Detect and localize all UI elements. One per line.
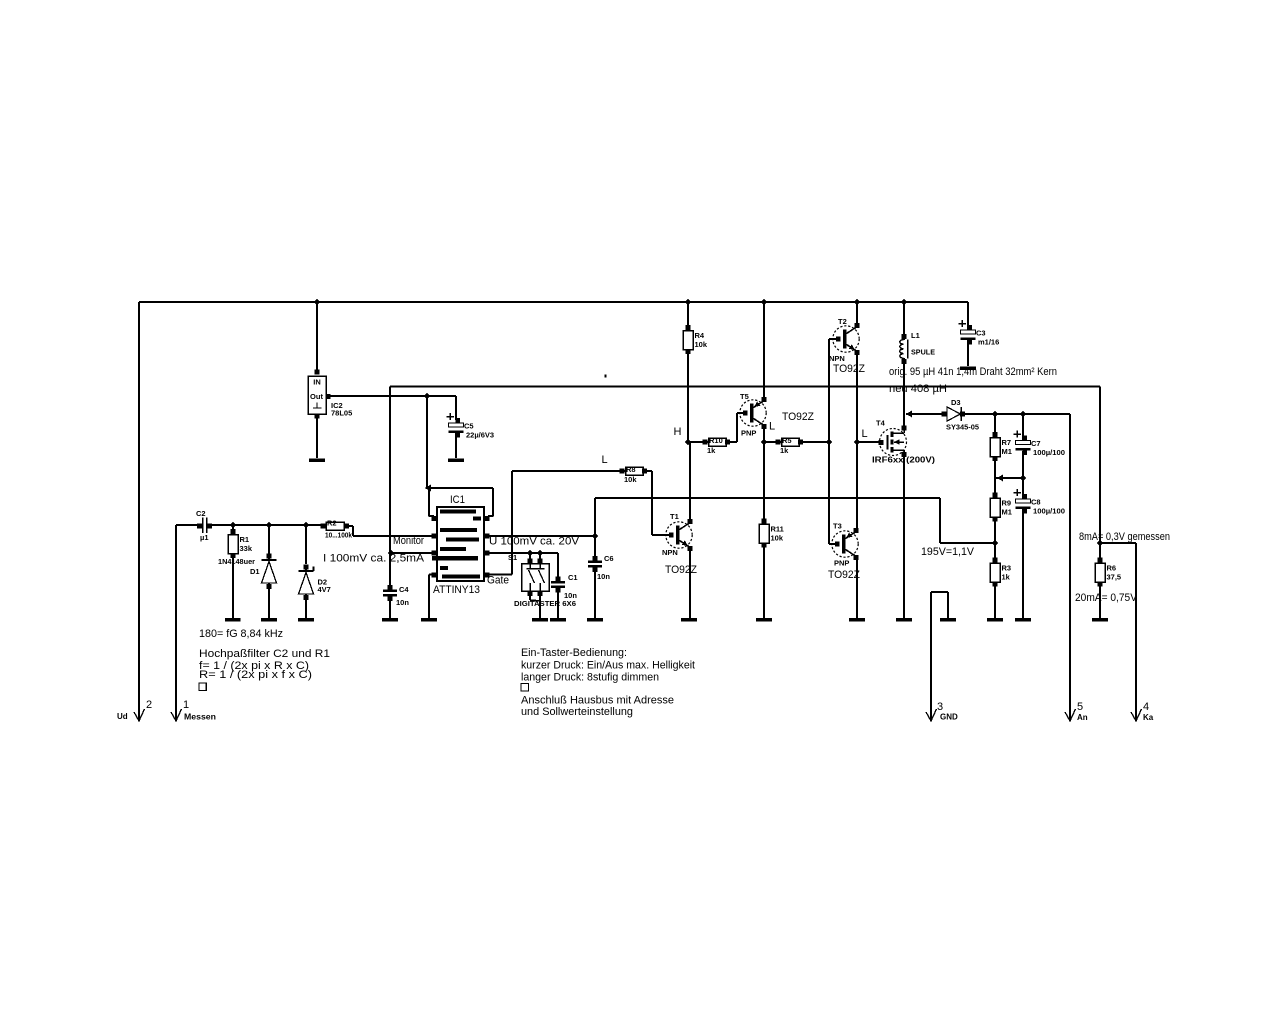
svg-text:22µ/6V3: 22µ/6V3: [466, 431, 494, 440]
pin arrow 3 GND: [926, 701, 958, 722]
junction: [230, 522, 237, 529]
svg-text:R8: R8: [626, 465, 636, 474]
wire S1 right stub top: [539, 553, 541, 561]
svg-text:C7: C7: [1031, 439, 1041, 448]
resistor R9: [990, 493, 1012, 522]
resistor R5: [776, 436, 803, 455]
wire gate tap to T4: [857, 441, 881, 443]
svg-text:4V7: 4V7: [318, 585, 331, 594]
resistor R11: [759, 519, 784, 548]
svg-text:Out: Out: [310, 392, 323, 401]
wire R3 to ground: [994, 584, 996, 618]
svg-text:T1: T1: [670, 512, 679, 521]
wire D2 top: [305, 525, 307, 564]
wire C4 drop: [389, 553, 391, 588]
svg-text:µ1: µ1: [200, 533, 209, 542]
wire R6 to ground: [1099, 584, 1101, 618]
svg-text:PNP: PNP: [834, 559, 849, 568]
wire Gate row: [488, 471, 621, 575]
junction: [685, 439, 692, 446]
capacitor: [1014, 430, 1031, 455]
wire C3 gnd drop: [967, 340, 969, 366]
inductor L1 SPULE: [900, 334, 908, 364]
wire C4 to ground: [389, 598, 391, 618]
svg-text:NPN: NPN: [662, 548, 678, 557]
svg-text:Monitor: Monitor: [393, 535, 424, 547]
ground: [382, 618, 398, 621]
svg-text:T3: T3: [833, 522, 842, 531]
svg-text:TO92Z: TO92Z: [833, 363, 865, 375]
junction: [901, 299, 908, 306]
junction: [303, 522, 310, 529]
ground: [309, 459, 325, 462]
diode D2: [299, 565, 314, 600]
ground: [532, 618, 548, 621]
svg-text:R3: R3: [1002, 564, 1012, 573]
svg-text:SY345-05: SY345-05: [946, 423, 979, 432]
capacitor C5: [447, 413, 495, 440]
junction: [992, 540, 999, 547]
wire L node to R11: [763, 442, 765, 521]
wire T2 emitter to T3 emitter column: [856, 351, 858, 531]
junction: [992, 411, 999, 418]
junction: [761, 299, 768, 306]
IC1 pins: [432, 534, 490, 578]
junction: [527, 550, 534, 557]
ground: [421, 618, 437, 621]
svg-text:kurzer Druck: Ein/Aus max. Hel: kurzer Druck: Ein/Aus max. Helligkeit: [521, 660, 695, 672]
wire H node to R10: [688, 441, 705, 443]
wire C8 to ground: [1022, 509, 1024, 618]
wire R4 top: [687, 302, 689, 328]
svg-text:R1: R1: [240, 535, 250, 544]
svg-text:M1: M1: [1002, 508, 1012, 517]
wire C6 drop: [594, 536, 596, 559]
svg-text:10k: 10k: [695, 340, 708, 349]
wire L node to R5: [764, 441, 777, 443]
wire 5V rail: [390, 386, 1100, 388]
svg-text:1N4148uer: 1N4148uer: [218, 557, 255, 566]
svg-text:D3: D3: [951, 398, 961, 407]
wire An column: [1069, 414, 1071, 719]
junction: [854, 299, 861, 306]
wire U100mV row: [488, 535, 595, 537]
wire Ka column: [1135, 543, 1137, 719]
stray dot: [605, 375, 607, 378]
capacitor: [1014, 489, 1031, 514]
svg-text:10n: 10n: [564, 591, 577, 600]
svg-text:D1: D1: [250, 567, 260, 576]
ground: [225, 618, 241, 621]
wire C2 row: [209, 524, 323, 526]
svg-text:R6: R6: [1107, 564, 1117, 573]
wire C7 top stub: [1022, 414, 1024, 440]
svg-text:U 100mV ca. 20V: U 100mV ca. 20V: [489, 536, 580, 548]
svg-text:neu 408 µH: neu 408 µH: [889, 383, 947, 395]
wire R9 bottom to R3: [994, 519, 996, 560]
capacitor C4: [383, 585, 409, 607]
svg-text:C2: C2: [196, 509, 206, 518]
svg-text:S1: S1: [508, 553, 517, 562]
svg-text:m1/16: m1/16: [978, 338, 999, 347]
ground: [987, 618, 1003, 621]
svg-text:195V=1,1V: 195V=1,1V: [921, 546, 975, 558]
svg-text:R9: R9: [1002, 499, 1012, 508]
svg-text:R7: R7: [1002, 438, 1012, 447]
svg-text:180= fG 8,84 kHz: 180= fG 8,84 kHz: [199, 628, 283, 640]
pushbutton S1 DIGITASTER 6X6: [522, 559, 550, 596]
svg-text:IN: IN: [313, 378, 321, 387]
wire 195V drop: [939, 498, 941, 543]
svg-text:H: H: [674, 426, 682, 438]
svg-text:2: 2: [146, 699, 152, 711]
resistor R7: [990, 432, 1012, 461]
svg-text:R4: R4: [695, 331, 705, 340]
wire Messen stub: [176, 524, 199, 526]
wire left Ud column: [138, 302, 140, 719]
svg-text:und Sollwerteinstellung: und Sollwerteinstellung: [521, 706, 633, 718]
microcontroller IC1 body: [437, 507, 484, 581]
wire L1 top: [903, 302, 905, 336]
svg-text:Anschluß Hausbus mit Adresse: Anschluß Hausbus mit Adresse: [521, 695, 674, 707]
svg-text:M1: M1: [1002, 447, 1012, 456]
capacitor C1: [551, 573, 578, 600]
wire 195V row: [940, 542, 995, 544]
ground: [681, 618, 697, 621]
wire T2 base stub: [829, 338, 836, 340]
wire R7 top stub: [994, 414, 996, 435]
junction: [685, 299, 692, 306]
wire 5V rail left drop to C4 node: [389, 387, 391, 554]
pin arrow 4 Ka: [1131, 701, 1154, 722]
svg-text:10...100k: 10...100k: [325, 531, 353, 540]
resistor R3: [990, 558, 1011, 587]
resistor R1: [228, 529, 253, 558]
wire GND stub: [931, 592, 948, 618]
wire IC2 gnd drop: [316, 415, 318, 458]
svg-text:C4: C4: [399, 585, 409, 594]
svg-text:1k: 1k: [1002, 573, 1011, 582]
junction: [1020, 475, 1027, 482]
junction: [761, 439, 768, 446]
svg-text:I 100mV ca. 2,5mA: I 100mV ca. 2,5mA: [323, 553, 425, 565]
ground: [896, 618, 912, 621]
svg-text:3: 3: [937, 701, 943, 713]
resistor R4: [683, 325, 708, 354]
wire D1 top: [268, 525, 270, 557]
small square marker mid: [521, 684, 528, 691]
svg-text:R10: R10: [709, 436, 723, 445]
wire C6 node up: [594, 498, 596, 536]
wire C7 row to C8: [1022, 478, 1024, 499]
junction: [424, 393, 431, 400]
pin arrow 5 An: [1065, 701, 1088, 722]
wire R4 to H node: [687, 328, 689, 442]
wire GND arrow column: [930, 592, 932, 719]
svg-text:10k: 10k: [771, 534, 784, 543]
junction: [388, 550, 395, 557]
junction arrow R7 bottom row: [997, 475, 1004, 482]
svg-text:78L05: 78L05: [331, 409, 352, 418]
transistor T5: [740, 397, 767, 429]
svg-text:10n: 10n: [597, 572, 610, 581]
wire R6 node to Ka branch: [1100, 542, 1136, 544]
svg-text:T5: T5: [740, 392, 749, 401]
wire R1 top stub: [232, 525, 234, 532]
junction arrow at T4 drain: [906, 411, 913, 418]
diode D1: [262, 554, 277, 589]
svg-text:TO92Z: TO92Z: [828, 569, 860, 581]
svg-text:L1: L1: [911, 331, 920, 340]
svg-text:R5: R5: [782, 436, 792, 445]
svg-text:R= 1 / (2x pi x f x C): R= 1 / (2x pi x f x C): [199, 669, 312, 681]
ground: [261, 618, 277, 621]
svg-text:IC1: IC1: [450, 494, 465, 506]
svg-text:L: L: [769, 421, 775, 433]
wire T2/T3 base column: [828, 339, 830, 544]
ground: [940, 618, 956, 621]
voltage regulator IC2 78L05: [308, 370, 330, 419]
wire R1 to ground: [232, 555, 234, 618]
junction: [854, 439, 861, 446]
svg-text:5: 5: [1077, 701, 1083, 713]
transistor T1: [666, 519, 693, 551]
wire T1 emitter to ground: [689, 548, 691, 618]
svg-text:100µ/100: 100µ/100: [1033, 507, 1065, 516]
wire right drop to R6: [1099, 387, 1101, 561]
wire S1 row: [488, 552, 558, 554]
resistor R8: [620, 465, 647, 484]
junction: [537, 550, 544, 557]
wire T4 source to ground: [903, 455, 905, 618]
junction: [592, 533, 599, 540]
capacitor C3: [959, 320, 1000, 347]
svg-text:T2: T2: [838, 317, 847, 326]
svg-text:GND: GND: [940, 713, 958, 722]
svg-text:4: 4: [1143, 701, 1149, 713]
wire C6 to ground: [594, 569, 596, 618]
svg-text:37,5: 37,5: [1107, 573, 1122, 582]
junction: [266, 522, 273, 529]
wire D3 cathode row: [962, 413, 1070, 415]
ground: [550, 618, 566, 621]
transistor T3: [832, 528, 859, 560]
ground: [587, 618, 603, 621]
ground: [756, 618, 772, 621]
transistor T2: [833, 323, 860, 355]
svg-text:IRF6xx (200V): IRF6xx (200V): [872, 456, 935, 465]
wire T3 collector to ground: [856, 558, 858, 618]
ground: [448, 459, 464, 462]
svg-text:C1: C1: [568, 573, 578, 582]
pin arrow 1 Messen: [171, 699, 216, 722]
wire C1 to ground: [557, 589, 559, 618]
capacitor C6: [588, 554, 614, 581]
wire C5 drop: [455, 396, 457, 420]
wire R7-R9 link: [994, 458, 996, 495]
svg-text:TO92Z: TO92Z: [665, 564, 697, 576]
svg-text:SPULE: SPULE: [911, 348, 935, 357]
svg-text:100µ/100: 100µ/100: [1033, 448, 1065, 457]
wire IC1 gnd: [429, 575, 433, 619]
wire R8 to T1 base: [644, 471, 670, 535]
MOSFET T4 IRF6xx: [879, 426, 907, 457]
wire R2 to Monitor pin: [346, 526, 433, 536]
wire T1 collector riser: [689, 442, 691, 521]
ground: [298, 618, 314, 621]
svg-text:8mA= 0,3V gemessen: 8mA= 0,3V gemessen: [1079, 531, 1170, 543]
svg-text:L: L: [602, 454, 608, 466]
wire T4 drain node to D3: [906, 413, 944, 415]
svg-text:33k: 33k: [240, 544, 253, 553]
junction: [1097, 540, 1104, 547]
wire D2 to ground: [305, 593, 307, 618]
svg-text:20mA= 0,75V: 20mA= 0,75V: [1075, 592, 1138, 604]
svg-text:C5: C5: [464, 422, 474, 431]
svg-text:R2: R2: [327, 519, 337, 528]
svg-text:PNP: PNP: [741, 429, 756, 438]
wire C1 drop: [557, 553, 559, 579]
wire S1 bottom merge: [530, 593, 540, 601]
wire 2.5mA row to IC1: [390, 552, 433, 554]
svg-text:T4: T4: [876, 419, 886, 428]
wire Messen column: [175, 525, 177, 719]
svg-text:DIGITASTER 6X6: DIGITASTER 6X6: [514, 599, 576, 608]
resistor R10: [703, 436, 730, 455]
svg-text:C8: C8: [1031, 498, 1041, 507]
svg-text:Ud: Ud: [117, 712, 128, 721]
IC1 ATTINY13 frame: [425, 485, 494, 521]
svg-text:NPN: NPN: [829, 354, 845, 363]
wire T5 collector to L node: [763, 426, 765, 442]
wire IC2 IN drop: [316, 302, 318, 372]
junction: [1020, 411, 1027, 418]
wire T5 emitter column: [763, 302, 765, 401]
wire C3 top: [967, 302, 969, 331]
small square marker left: [199, 683, 206, 690]
wire +V top rail: [139, 301, 968, 303]
svg-text:ATTINY13: ATTINY13: [433, 584, 480, 596]
wire R10 to T5 base: [728, 413, 746, 442]
svg-text:1k: 1k: [707, 446, 716, 455]
wire C5 gnd drop: [455, 433, 457, 458]
wire S1 to ground: [539, 601, 541, 618]
svg-text:C6: C6: [604, 554, 614, 563]
pin arrow 2 Ud: [117, 699, 152, 721]
svg-text:Hochpaßfilter C2 und R1: Hochpaßfilter C2 und R1: [199, 648, 330, 660]
junction: [826, 439, 833, 446]
svg-text:10n: 10n: [396, 598, 409, 607]
svg-text:10k: 10k: [624, 475, 637, 484]
ground: [849, 618, 865, 621]
svg-text:orig. 95 µH 41n 1,4m Draht 32m: orig. 95 µH 41n 1,4m Draht 32mm² Kern: [889, 366, 1057, 378]
svg-text:Ein-Taster-Bedienung:: Ein-Taster-Bedienung:: [521, 647, 627, 659]
IC1 pin name bars: [432, 510, 481, 579]
svg-text:Messen: Messen: [184, 713, 216, 722]
resistor R2 10..100k: [321, 519, 353, 540]
junction: [314, 299, 321, 306]
wire D1 to ground: [268, 586, 270, 618]
svg-text:1: 1: [183, 699, 189, 711]
svg-text:Gate: Gate: [487, 575, 509, 587]
wire L1 to T4 drain: [903, 362, 905, 428]
wire R5 to base column: [801, 441, 829, 443]
ground: [960, 367, 976, 370]
svg-text:C3: C3: [976, 329, 986, 338]
wire IC2 Out to C5: [326, 395, 456, 397]
diode D3 SY345-05: [942, 407, 965, 421]
wire S1 left stub top: [529, 553, 531, 561]
resistor R6: [1095, 558, 1121, 587]
wire R11 to ground: [763, 547, 765, 618]
wire T3 base stub: [829, 543, 838, 545]
svg-text:Ka: Ka: [1143, 713, 1154, 722]
svg-text:langer Druck: 8stufig dimmen: langer Druck: 8stufig dimmen: [521, 672, 659, 684]
ground: [1092, 618, 1108, 621]
svg-text:An: An: [1077, 713, 1088, 722]
svg-text:L: L: [862, 428, 868, 440]
wire long mid row: [595, 497, 940, 499]
wire C7 bottom stub: [1022, 451, 1024, 478]
ground: [1015, 618, 1031, 621]
wire R7/C7 bottom row: [996, 477, 1023, 479]
svg-text:1k: 1k: [780, 446, 789, 455]
capacitor C2 u1: [196, 509, 212, 542]
wire 5V to IC1 frame: [426, 396, 428, 489]
wire T2 collector drop: [856, 302, 858, 327]
svg-text:R11: R11: [771, 525, 784, 534]
svg-text:TO92Z: TO92Z: [782, 411, 814, 423]
